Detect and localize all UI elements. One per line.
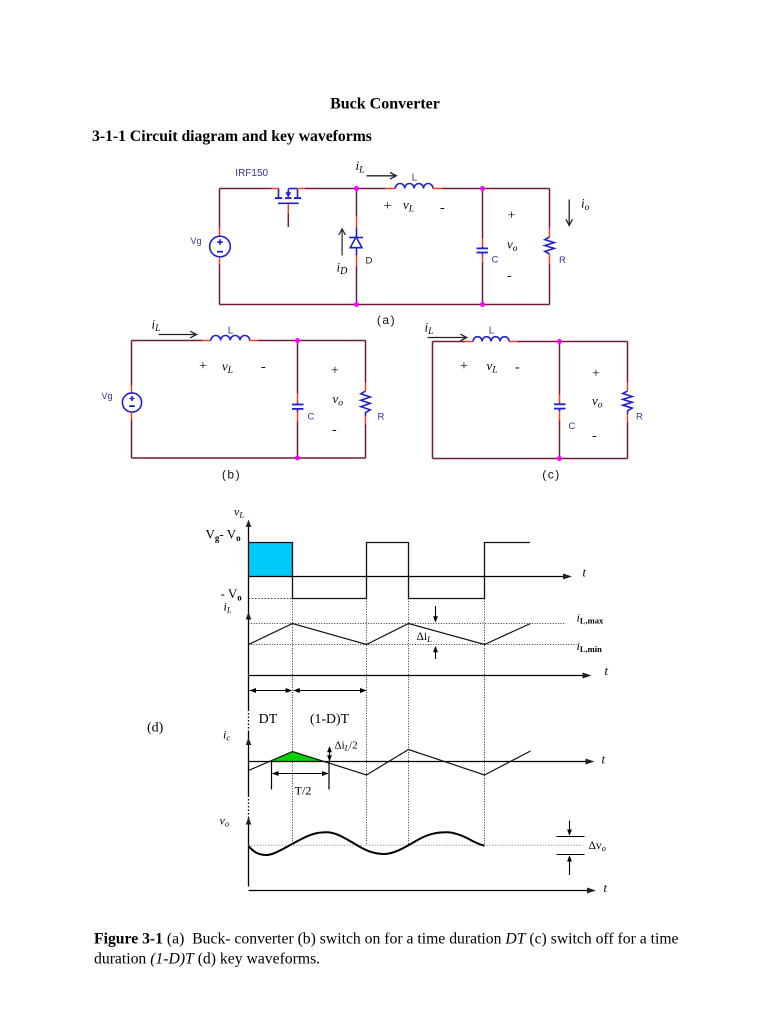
wire vL t-axis bbox=[249, 576, 570, 578]
wire pin inductor L right (b) bbox=[250, 340, 258, 342]
svg-text:(b): (b) bbox=[222, 468, 241, 482]
wire pin cap bottom (a) bbox=[482, 255, 484, 263]
wire bottom (c) bbox=[433, 458, 628, 460]
wire shared vertical axis line upper bbox=[248, 525, 250, 710]
wire left rail (c) bbox=[432, 342, 434, 459]
svg-text:(1-D)T: (1-D)T bbox=[310, 711, 350, 727]
svg-text:vL: vL bbox=[487, 358, 498, 376]
svg-text:-: - bbox=[332, 423, 337, 438]
wire cap branch lower (c) bbox=[559, 421, 561, 459]
wire left rail lower (b) bbox=[131, 420, 133, 459]
svg-text:T/2: T/2 bbox=[295, 784, 312, 798]
node vo dotted level bbox=[249, 844, 583, 846]
svg-text:vo: vo bbox=[220, 814, 230, 829]
svg-text:D: D bbox=[366, 256, 373, 267]
svg-text:C: C bbox=[492, 255, 499, 266]
wire vo t-axis bbox=[249, 890, 594, 892]
wire right rail lower (b) bbox=[365, 425, 367, 459]
arrow DT span bbox=[250, 688, 293, 693]
transistor Q1 arrow bbox=[285, 192, 291, 197]
inductor L (a) bbox=[395, 184, 433, 189]
svg-text:vL: vL bbox=[222, 358, 233, 376]
wire left rail lower (a) bbox=[219, 265, 221, 305]
arrow iL (a) bbox=[367, 173, 397, 180]
svg-text:Figure 3-1 (a) Buck- converte: Figure 3-1 (a) Buck- converter (b) switc… bbox=[94, 931, 679, 948]
wire pin cap top (b) bbox=[297, 394, 299, 403]
svg-text:-: - bbox=[261, 360, 266, 375]
svg-text:vo: vo bbox=[333, 391, 344, 409]
wire pin inductor L left (a) bbox=[386, 188, 396, 190]
wire pin Vg top (a) bbox=[219, 229, 221, 237]
wire pin diode top (a) bbox=[356, 217, 358, 228]
wire ic t-axis bbox=[249, 761, 593, 763]
svg-text:-: - bbox=[592, 429, 597, 444]
wire diode branch lower (a) bbox=[356, 266, 358, 305]
capacitor C (c) bbox=[554, 403, 566, 412]
source Vg (b) bbox=[122, 393, 141, 412]
svg-text:L: L bbox=[228, 326, 234, 337]
svg-text:iL: iL bbox=[224, 600, 232, 615]
svg-text:io: io bbox=[581, 196, 590, 214]
arrow delta-iL/2 bbox=[327, 746, 332, 762]
wire right rail upper (a) bbox=[549, 189, 551, 228]
node junction top cap (a) bbox=[480, 186, 485, 191]
wire cap branch upper (b) bbox=[297, 341, 299, 394]
wire right rail upper (c) bbox=[627, 342, 629, 383]
svg-text:+: + bbox=[199, 359, 207, 374]
wire pin cap top (a) bbox=[482, 239, 484, 247]
wire left rail upper (b) bbox=[131, 341, 133, 386]
wire shared vertical axis dotted above vo arrow bbox=[248, 796, 250, 817]
svg-text:+: + bbox=[592, 367, 600, 382]
arrow T/2 span bbox=[272, 771, 329, 776]
svg-text:t: t bbox=[605, 664, 609, 678]
arrow io bbox=[566, 200, 573, 226]
wire pin R bottom (b) bbox=[365, 416, 367, 424]
svg-text:C: C bbox=[308, 412, 315, 423]
wire pin inductor L left (b) bbox=[203, 340, 211, 342]
svg-text:+: + bbox=[508, 209, 516, 224]
svg-text:iL: iL bbox=[425, 320, 434, 338]
wire right rail lower (c) bbox=[627, 423, 629, 459]
svg-text:Vg: Vg bbox=[191, 236, 202, 246]
green area ic positive bbox=[269, 752, 327, 762]
node vo axis arrowhead bbox=[246, 817, 252, 825]
inductor L (c) bbox=[473, 337, 509, 342]
node iL axis arrowhead bbox=[246, 612, 252, 620]
arrow delta-vo upper bbox=[557, 821, 585, 837]
svg-text:L: L bbox=[412, 173, 418, 184]
diode D (a) bbox=[349, 228, 363, 256]
wave ic triangle bbox=[249, 750, 531, 776]
svg-text:ΔiL: ΔiL bbox=[417, 631, 433, 644]
svg-text:duration (1-D)T (d) key wavefo: duration (1-D)T (d) key waveforms. bbox=[94, 951, 320, 968]
wire top right (c) bbox=[518, 341, 628, 343]
node junction bottom (b) bbox=[295, 456, 300, 461]
wave iL triangle bbox=[249, 624, 531, 645]
svg-text:iL,max: iL,max bbox=[577, 611, 604, 626]
svg-text:ic: ic bbox=[223, 728, 230, 743]
wire pin R bottom (a) bbox=[549, 254, 551, 265]
svg-text:Buck Converter: Buck Converter bbox=[330, 96, 440, 113]
node vertical guide x=292 dotted bbox=[292, 599, 294, 846]
node T/2 left tick bbox=[271, 762, 273, 790]
wire top right (a) bbox=[443, 188, 550, 190]
wire cap branch upper (c) bbox=[559, 342, 561, 395]
wire top left (a) bbox=[220, 188, 272, 190]
svg-text:t: t bbox=[583, 566, 587, 580]
wire shared vertical axis dotted above ic arrow bbox=[248, 710, 250, 732]
wire pin cap bottom (c) bbox=[559, 411, 561, 421]
svg-text:3-1-1 Circuit diagram and key: 3-1-1 Circuit diagram and key waveforms bbox=[92, 128, 372, 145]
wire shared vertical axis mid bbox=[248, 732, 250, 796]
svg-text:ΔiL/2: ΔiL/2 bbox=[335, 740, 358, 753]
svg-text:+: + bbox=[331, 364, 339, 379]
svg-text:L: L bbox=[489, 326, 495, 337]
wire gate lead Q1 bbox=[287, 214, 289, 228]
wave vL square bbox=[249, 543, 531, 599]
node junction bottom cap (a) bbox=[480, 302, 485, 307]
capacitor C (a) bbox=[477, 247, 489, 255]
node iL t-axis arrowhead bbox=[583, 673, 592, 679]
node vL t-axis arrowhead bbox=[563, 574, 572, 580]
node ic t-axis arrowhead bbox=[586, 759, 595, 765]
wire top right (b) bbox=[258, 340, 366, 342]
wire pin Vg bottom (a) bbox=[219, 257, 221, 265]
node vertical guide x=408.5 dotted bbox=[408, 599, 410, 846]
wire diode branch upper (a) bbox=[356, 189, 358, 217]
wire pin source Q1 bbox=[299, 188, 306, 190]
svg-text:t: t bbox=[602, 753, 606, 767]
svg-text:iL: iL bbox=[356, 158, 365, 176]
arrow iL (c) bbox=[428, 334, 467, 341]
wire shared vertical axis lower bbox=[248, 817, 250, 887]
svg-text:-: - bbox=[440, 201, 445, 216]
wire pin cap top (c) bbox=[559, 395, 561, 403]
resistor R (c) bbox=[623, 391, 632, 414]
wire pin inductor L right (c) bbox=[509, 341, 517, 343]
svg-text:IRF150: IRF150 bbox=[235, 168, 268, 179]
svg-text:t: t bbox=[604, 881, 608, 895]
resistor R (b) bbox=[361, 391, 370, 416]
svg-text:+: + bbox=[460, 359, 468, 374]
wire pin Vg top (b) bbox=[131, 386, 133, 394]
node T/2 right tick bbox=[328, 762, 330, 790]
wire pin cap bottom (b) bbox=[297, 412, 299, 422]
source Vg (a) bbox=[210, 236, 231, 257]
wire pin R top (a) bbox=[549, 228, 551, 238]
arrow iD bbox=[339, 229, 346, 256]
node junction top (b) bbox=[295, 338, 300, 343]
wire right rail lower (a) bbox=[549, 265, 551, 305]
svg-text:Vg: Vg bbox=[102, 391, 113, 401]
node vL axis arrowhead bbox=[246, 520, 252, 528]
wire top left (c) bbox=[433, 341, 465, 343]
svg-text:Δvo: Δvo bbox=[589, 840, 606, 853]
inductor L (b) bbox=[211, 336, 250, 341]
node junction bottom diode (a) bbox=[354, 302, 359, 307]
arrow delta-iL lower bbox=[433, 646, 438, 659]
svg-text:C: C bbox=[569, 421, 576, 432]
wire pin drain Q1 bbox=[272, 188, 279, 190]
wire iL t-axis bbox=[249, 675, 590, 677]
svg-text:vo: vo bbox=[507, 237, 518, 255]
svg-text:Vg- Vo: Vg- Vo bbox=[206, 527, 242, 544]
wire cap branch upper (a) bbox=[482, 189, 484, 239]
svg-text:(d): (d) bbox=[147, 721, 164, 736]
node -Vo dotted level bbox=[249, 598, 293, 600]
node vertical guide x=484 dotted bbox=[484, 599, 486, 846]
svg-text:R: R bbox=[378, 412, 385, 423]
svg-text:-: - bbox=[515, 360, 520, 375]
wire cap branch lower (a) bbox=[482, 263, 484, 305]
wire pin R bottom (c) bbox=[627, 414, 629, 423]
svg-text:iL: iL bbox=[152, 317, 161, 335]
wire top mid (a) bbox=[305, 188, 386, 190]
arrow delta-iL upper bbox=[433, 606, 438, 623]
wire right rail upper (b) bbox=[365, 341, 367, 383]
wave vo ripple bbox=[249, 832, 485, 855]
wire cap branch lower (b) bbox=[297, 422, 299, 459]
wire pin inductor L right (a) bbox=[433, 188, 443, 190]
node iLmin dotted level bbox=[249, 644, 577, 646]
node iLmax dotted level bbox=[249, 623, 566, 625]
wire gate stub Q1 bbox=[287, 204, 289, 213]
svg-text:+: + bbox=[384, 199, 392, 214]
resistor R (a) bbox=[545, 237, 554, 254]
svg-text:R: R bbox=[636, 412, 643, 423]
wire bottom (b) bbox=[132, 457, 366, 459]
node junction bottom (c) bbox=[557, 456, 562, 461]
wire bottom (a) bbox=[220, 304, 550, 306]
wire pin diode bottom (a) bbox=[356, 256, 358, 267]
node junction top (c) bbox=[557, 339, 562, 344]
arrow (1-D)T span bbox=[293, 688, 366, 693]
capacitor C (b) bbox=[292, 403, 304, 412]
svg-text:R: R bbox=[559, 255, 566, 266]
wire left rail upper (a) bbox=[219, 189, 221, 229]
svg-text:(a): (a) bbox=[377, 313, 396, 327]
svg-text:iL,min: iL,min bbox=[577, 639, 603, 654]
node vo t-axis arrowhead bbox=[587, 888, 596, 894]
node ic axis arrowhead bbox=[246, 738, 252, 746]
transistor Q1 IRF150 bbox=[275, 189, 301, 204]
arrow iL (b) bbox=[159, 331, 197, 338]
wire top left (b) bbox=[132, 340, 203, 342]
svg-text:-: - bbox=[507, 269, 512, 284]
node vertical guide x=366.5 dotted bbox=[366, 599, 368, 846]
cyan area vL pulse bbox=[249, 543, 293, 577]
svg-text:vo: vo bbox=[592, 393, 603, 411]
wire pin Vg bottom (b) bbox=[131, 412, 133, 419]
wire pin inductor L left (c) bbox=[465, 341, 474, 343]
wire pin R top (b) bbox=[365, 383, 367, 392]
svg-text:(c): (c) bbox=[542, 468, 561, 482]
svg-text:iD: iD bbox=[337, 260, 349, 278]
wire pin R top (c) bbox=[627, 383, 629, 392]
svg-text:vL: vL bbox=[234, 505, 244, 520]
arrow delta-vo lower bbox=[557, 855, 585, 876]
node junction top diode (a) bbox=[354, 186, 359, 191]
svg-text:DT: DT bbox=[259, 712, 278, 727]
svg-text:vL: vL bbox=[403, 197, 414, 215]
